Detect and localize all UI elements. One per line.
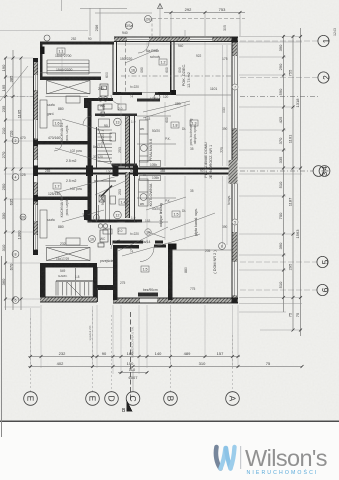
wall interior v x171 upper <box>170 42 171 92</box>
axis A vertical connector <box>232 335 234 392</box>
furniture cluster lower <box>98 224 108 247</box>
big room left wall <box>113 245 118 299</box>
window gaps right wall <box>232 56 237 295</box>
thin v lines right rooms <box>165 45 227 245</box>
wall right outer hatched <box>232 37 238 304</box>
right extension lines <box>239 36 302 38</box>
page bottom edge line <box>0 421 339 423</box>
party wall lower line <box>33 172 238 174</box>
big room top wall a <box>113 245 139 249</box>
garage treads upper <box>47 60 89 74</box>
wall bottom step v link <box>97 288 98 302</box>
wall bottom-left hatched <box>40 297 97 303</box>
chain line l2 <box>12 50 14 310</box>
axis E2 vertical connector <box>92 310 94 392</box>
chain line b2 <box>28 366 302 368</box>
marker circle 8b <box>94 215 100 221</box>
grid bubble B <box>164 392 178 406</box>
logo W icon stroke3 <box>226 448 231 469</box>
wall divider garage/room vertical <box>113 42 114 95</box>
left ticks <box>4 57 7 60</box>
axis C vertical connector <box>132 370 134 392</box>
left extension lines <box>4 57 33 59</box>
extra texts right rooms <box>143 95 169 180</box>
wall v x88 upper segment <box>88 101 92 168</box>
ramp X-box lower <box>47 248 91 261</box>
wall stair room top <box>40 263 97 268</box>
wall v thin x136 lower <box>134 172 135 222</box>
right ticks r1 <box>282 35 285 38</box>
logo W icon stroke4 <box>231 447 235 469</box>
room labels rotated <box>149 64 217 274</box>
kitchen counters left mid <box>40 96 80 245</box>
top dim line <box>164 12 245 14</box>
svg-text:NIERUCHOMOŚCI: NIERUCHOMOŚCI <box>247 468 319 476</box>
roof overhang dashes top <box>0 8 245 36</box>
page left edge line <box>1 256 2 437</box>
right wall window markers <box>232 84 238 90</box>
wall v x88 lower <box>88 175 92 220</box>
grid bubbles bottom <box>24 392 240 406</box>
wall room divider h y92 <box>113 92 143 95</box>
grid bubble 6 <box>317 284 328 295</box>
bath fixtures upper <box>103 104 126 141</box>
chain line r1 <box>283 35 285 312</box>
kitchen counter lower right room <box>139 176 161 207</box>
axis 1 connector <box>240 40 318 42</box>
upper diagonals leaders <box>143 101 190 238</box>
kitchen counter upper right room <box>140 120 161 167</box>
top extension lines <box>61 0 63 11</box>
door sill bar lower <box>138 293 158 297</box>
chain line l1 <box>5 58 7 310</box>
wall v hatched x125 lower <box>125 172 130 218</box>
party wall upper line <box>33 167 238 169</box>
axis dash-dot lines <box>0 41 318 400</box>
svg-text:Wilson's: Wilson's <box>245 445 327 471</box>
party wall junction block right <box>229 160 238 184</box>
bottom ticks b2 <box>29 365 32 368</box>
faint grid verticals inside <box>62 8 205 297</box>
axis B2 vertical connector <box>170 310 172 392</box>
grid bubble D <box>105 392 119 406</box>
marker circle O9 <box>145 16 152 23</box>
marker triangle <box>158 4 163 9</box>
wall v thin x110 lower hall <box>110 225 111 245</box>
grid bubble 5 <box>317 256 328 267</box>
big room corner block <box>168 244 177 250</box>
bottom extension lines <box>30 308 32 368</box>
big room right wall <box>168 247 173 300</box>
leader diagonals <box>55 49 215 256</box>
rotated dims right room <box>140 67 182 123</box>
axis line 3-4 horizontal dashed <box>240 170 313 172</box>
wall v thin x136 upper <box>134 116 135 168</box>
wall left outer hatched <box>33 58 38 255</box>
wall h y113 upper bath <box>95 114 137 117</box>
chain line r3 <box>300 28 302 336</box>
right dimension chains <box>284 28 301 336</box>
wall top-right hatched <box>114 37 238 43</box>
door arcs <box>54 42 154 262</box>
axis 2 connector <box>240 77 318 79</box>
left dimension chains <box>6 50 22 310</box>
chain line b1 <box>28 356 240 358</box>
wall bottom step <box>97 285 114 290</box>
wall stair room left <box>40 263 46 302</box>
dark h segment kitchen top <box>137 99 160 102</box>
bottom ticks b3 <box>120 371 123 374</box>
top-left diagonal leader <box>0 66 28 101</box>
logo W icon stroke2 <box>221 448 226 469</box>
wall garage left solid <box>40 42 43 78</box>
stairs lower room <box>56 268 93 297</box>
stub wall corner x84 <box>84 98 88 108</box>
chain line b3 short <box>118 372 148 374</box>
grid bubbles right <box>313 35 330 295</box>
room number boxes <box>53 48 198 272</box>
chain line r2 <box>292 35 294 330</box>
window sill line top-right <box>118 43 232 45</box>
axis B vertical heavy dashed <box>130 312 132 400</box>
small texts horizontal <box>20 31 228 292</box>
wall v hatched x125 upper <box>125 116 130 168</box>
junction piers <box>33 37 238 304</box>
logo W icon stroke1 dark <box>216 447 221 469</box>
wall garage bottom <box>40 77 101 80</box>
grid bubble 1 <box>318 35 329 46</box>
dim texts inside rotated small <box>105 72 226 273</box>
wall stair room right <box>93 267 98 302</box>
logo divider bar <box>240 446 241 469</box>
right ticks r3 <box>299 35 302 38</box>
lower center shaft and lines <box>94 175 116 220</box>
bath fixtures lower <box>103 196 126 234</box>
top ticks <box>170 11 173 14</box>
wall h left rooms y141 <box>36 141 90 144</box>
grid bubble E2 <box>86 392 100 406</box>
window gap top-right 2 <box>190 38 212 42</box>
top markers <box>125 4 162 30</box>
axis 5 connector <box>240 261 317 263</box>
wall top-left (garage top) <box>40 42 114 45</box>
wall h y163.5 stairs bottom <box>112 164 137 167</box>
wall bottom-right hatched <box>113 298 238 304</box>
furniture cluster upper <box>98 84 108 116</box>
right ticks r2 <box>292 35 295 38</box>
axis line 2a horizontal dashed <box>240 96 318 98</box>
big room top wall b <box>154 245 166 248</box>
interior thin partition lines <box>46 93 232 268</box>
wall h left rooms y197 <box>36 197 90 200</box>
ramp X-box upper <box>47 81 91 95</box>
bottom dimension chains <box>28 357 302 373</box>
top dimension marks <box>62 0 246 42</box>
extra small annotation texts <box>45 37 228 291</box>
axis E1 vertical connector <box>30 318 32 392</box>
chain line l3 <box>20 58 22 310</box>
door gap bottom wall <box>140 299 157 303</box>
axis 6 connector <box>240 289 317 291</box>
bottom ticks b1 <box>29 355 32 358</box>
window gaps left wall <box>34 75 38 249</box>
grid bubble 2 <box>318 72 329 83</box>
grid bubble A <box>226 392 240 406</box>
grid bubble C <box>126 392 140 406</box>
section mark triangle B <box>127 400 133 412</box>
axis 2 dash through room <box>121 75 231 77</box>
axis D vertical connector <box>111 315 113 392</box>
wall h y222 lower bath <box>88 220 143 223</box>
grid bubble 3|4 <box>313 166 324 177</box>
marker circles in plan <box>12 35 225 303</box>
marker circle 19 <box>145 229 151 235</box>
wall v thin x96 upper <box>96 127 97 168</box>
window gap top-right 1 <box>127 38 149 42</box>
stairs upper center <box>98 119 113 166</box>
lower white strip <box>0 422 339 480</box>
rotated room labels left <box>60 123 105 218</box>
marker circle DSa <box>125 22 132 29</box>
wall v thin x96 lower <box>96 175 97 222</box>
grid bubble E1 <box>24 392 38 406</box>
box 1.8 upper <box>171 122 179 128</box>
